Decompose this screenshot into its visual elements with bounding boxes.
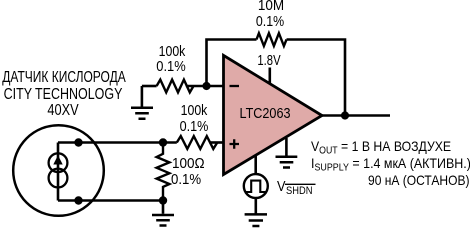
- wire sensor top to + input: [58, 141, 177, 144]
- label sensor text line3: [47, 103, 78, 119]
- label LTC2063: [239, 107, 290, 122]
- node output junction: [341, 111, 349, 119]
- node 100ohm bottom junction: [159, 196, 167, 204]
- op-amp U1 LTC2063 triangle: [224, 55, 323, 174]
- label sensor text line1: [2, 70, 126, 86]
- wire to + input: [209, 141, 224, 144]
- label 1.8V: [258, 53, 281, 68]
- pulse waveform glyph: [246, 181, 266, 192]
- wire sensor bottom: [58, 199, 163, 202]
- label 100k R2: [158, 44, 185, 59]
- label Vout line1: [311, 139, 451, 157]
- resistor R2 100k 0.1% inverting input: [157, 80, 194, 93]
- current source arrow: [53, 155, 62, 164]
- resistor R1 10M 0.1% feedback: [257, 33, 287, 46]
- pin minus symbol: [230, 85, 240, 87]
- current source I1 symbol circles: [49, 153, 68, 172]
- label Isupply line3: [368, 173, 470, 187]
- node sensor bottom terminal: [74, 196, 82, 204]
- label 0.1% R2: [156, 59, 185, 74]
- label V of V_SHDN: [277, 179, 286, 194]
- wire output: [322, 114, 390, 117]
- ground G2 (below 100ohm): [162, 201, 165, 214]
- wire feedback right vertical to output node: [287, 40, 346, 116]
- ground G3 (op-amp V-): [285, 138, 288, 156]
- pulse source V_SHDN circle: [244, 174, 268, 198]
- node inverting input junction: [202, 82, 210, 90]
- label 10M: [257, 0, 283, 13]
- current source vertical wire: [57, 143, 60, 201]
- node 100ohm top junction: [159, 138, 167, 146]
- label Isupply line2: [311, 156, 470, 174]
- resistor R3 100k 0.1% non-inverting input: [177, 136, 218, 149]
- label SHDN subscript: [286, 186, 312, 197]
- node sensor top terminal: [74, 138, 82, 146]
- wire G1 to resistor R2: [142, 85, 157, 88]
- sensor outer circle (oxygen sensor): [13, 125, 104, 216]
- label 100k R3: [181, 103, 208, 118]
- label sensor text line2: [3, 87, 122, 103]
- ground G4 (below pulse source): [245, 214, 267, 226]
- wire inverting input: [186, 85, 224, 88]
- wire pulse source to ground: [255, 198, 258, 214]
- label 0.1% R3: [180, 119, 209, 134]
- overline of SHDN: [285, 183, 316, 185]
- label 0.1% R1: [256, 14, 284, 29]
- resistor R4 100ohm 0.1% vertical: [157, 143, 170, 201]
- wire feedback: inv node up, across top: [207, 40, 257, 87]
- pin plus symbol: [230, 139, 240, 148]
- pin 1.8V supply: [268, 68, 271, 85]
- label 0.1% R4: [171, 172, 201, 187]
- ground G1 (left of R2): [141, 86, 144, 107]
- wire op-amp shdn pin down: [254, 156, 257, 174]
- label 100ohm R4: [172, 156, 205, 171]
